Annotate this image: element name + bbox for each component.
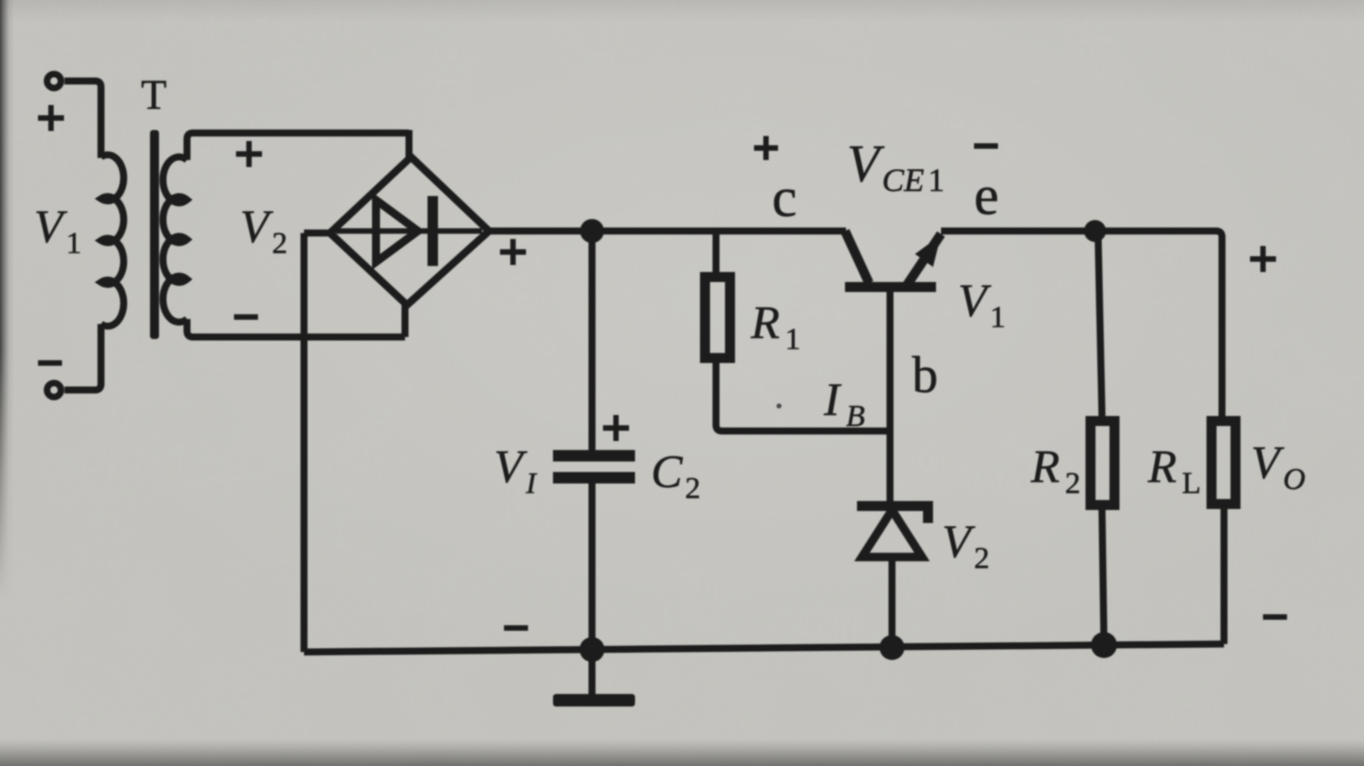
svg-text:1: 1: [785, 321, 801, 356]
wire R2 bottom lead: [1102, 510, 1104, 645]
wire bridge left vertex to left vertical: [304, 230, 330, 237]
label V2 (secondary voltage): [240, 201, 288, 260]
capacitor C2 bottom plate: [553, 472, 635, 484]
ground rail bottom: [304, 644, 1224, 652]
svg-text:2: 2: [272, 225, 288, 260]
wire zener anode lead: [889, 557, 896, 648]
resistor R2: [1091, 421, 1115, 505]
transistor V1 collector lead: [845, 231, 869, 283]
wire R2 top lead: [1098, 231, 1102, 416]
wire left vertical down to ground rail: [301, 233, 308, 652]
node junction dot R2 bottom: [1091, 632, 1117, 658]
wire main rail emitter to output corner: [941, 231, 1222, 416]
ground bar: [553, 694, 635, 707]
transformer secondary winding: [163, 157, 187, 322]
transistor V1 base bar: [845, 282, 936, 292]
node junction dot zener to rail: [880, 635, 905, 660]
svg-text:2: 2: [1065, 465, 1081, 500]
node junction dot R2 top: [1084, 220, 1106, 242]
label T (transformer): [141, 73, 167, 119]
node junction dot at capacitor top: [580, 219, 604, 243]
wire R1 bottom lead and IB wire to base: [716, 363, 890, 431]
node junction dot capacitor bottom: [580, 637, 605, 662]
input terminal top-left: [47, 74, 61, 88]
svg-text:e: e: [974, 165, 999, 227]
label + (output): [1250, 246, 1276, 272]
label VCE1: [847, 135, 945, 199]
svg-text:R: R: [1147, 441, 1177, 493]
wire R1 top lead: [713, 231, 720, 272]
label + (secondary): [236, 141, 262, 167]
label V1 (transistor): [958, 275, 1006, 334]
label + (input): [38, 105, 64, 131]
svg-text:T: T: [141, 73, 167, 119]
wire input top to primary: [65, 81, 102, 158]
paper grain: [0, 0, 1, 1]
label VO (output voltage): [1251, 437, 1305, 496]
transformer core: [150, 130, 159, 339]
bridge diode triangle: [376, 200, 418, 262]
ground stub: [589, 650, 596, 695]
label + (rectifier output): [500, 239, 526, 265]
wire RL bottom lead to rail corner: [1221, 509, 1228, 644]
label RL: [1147, 441, 1201, 500]
transistor V1 base vertical lead: [887, 292, 894, 502]
transistor V1 emitter arrow: [915, 235, 941, 267]
bridge rectifier diamond: [330, 157, 489, 305]
label IB (base current): [823, 374, 865, 433]
label C2 (capacitor): [651, 446, 701, 505]
svg-text:2: 2: [974, 540, 990, 575]
svg-text:b: b: [912, 347, 938, 404]
label minus (secondary): [234, 314, 258, 319]
resistor R1: [705, 277, 730, 358]
label R1: [750, 297, 801, 356]
svg-text:R: R: [750, 297, 780, 349]
label minus (near ground rail left of capacitor): [504, 625, 528, 630]
label VI (input filtered voltage): [494, 441, 538, 500]
svg-text:L: L: [1182, 465, 1201, 500]
transistor V1 emitter lead: [905, 234, 941, 288]
label minus (input): [38, 360, 62, 365]
label + (VCE1): [754, 136, 778, 160]
label V2 (zener): [942, 516, 990, 575]
wire bridge top stub: [406, 130, 413, 158]
svg-text:C: C: [651, 446, 683, 498]
wire capacitor bottom lead: [589, 483, 596, 650]
label R2: [1030, 441, 1081, 500]
svg-text:B: B: [846, 398, 865, 433]
svg-text:c: c: [772, 167, 797, 229]
label minus (output): [1263, 614, 1287, 619]
label c (collector): [772, 167, 797, 229]
svg-text:V: V: [847, 135, 885, 193]
resistor RL: [1212, 421, 1236, 504]
svg-text:1: 1: [990, 299, 1006, 334]
wire bridge bottom stub: [402, 304, 409, 337]
wire primary bottom to input terminal: [65, 324, 102, 390]
svg-text:1: 1: [66, 225, 82, 260]
svg-text:R: R: [1030, 441, 1060, 493]
svg-text:2: 2: [685, 470, 701, 505]
label V1 (input voltage): [34, 201, 82, 260]
svg-text:I: I: [823, 374, 842, 426]
bridge diode arrow line: [336, 228, 482, 234]
zener diode V2 triangle: [862, 510, 922, 557]
label e (emitter): [974, 165, 999, 227]
label minus (VCE1): [974, 143, 998, 148]
transformer primary winding: [101, 155, 124, 326]
small speck: [777, 404, 782, 409]
bridge diode cathode bar: [428, 196, 439, 266]
zener diode V2 cathode bar: [857, 506, 928, 523]
svg-text:CE: CE: [882, 163, 924, 199]
capacitor C2 top plate: [553, 450, 635, 462]
wire main rail bridge to collector: [489, 228, 846, 235]
svg-text:1: 1: [928, 163, 945, 199]
label b (base): [912, 347, 938, 404]
label + (capacitor): [603, 415, 629, 441]
wire secondary bottom to bridge bottom vertex: [187, 319, 405, 337]
wire capacitor top lead: [589, 231, 596, 450]
svg-text:O: O: [1283, 461, 1305, 496]
input terminal bottom-left: [47, 383, 61, 397]
wire secondary top to bridge: [187, 133, 409, 160]
